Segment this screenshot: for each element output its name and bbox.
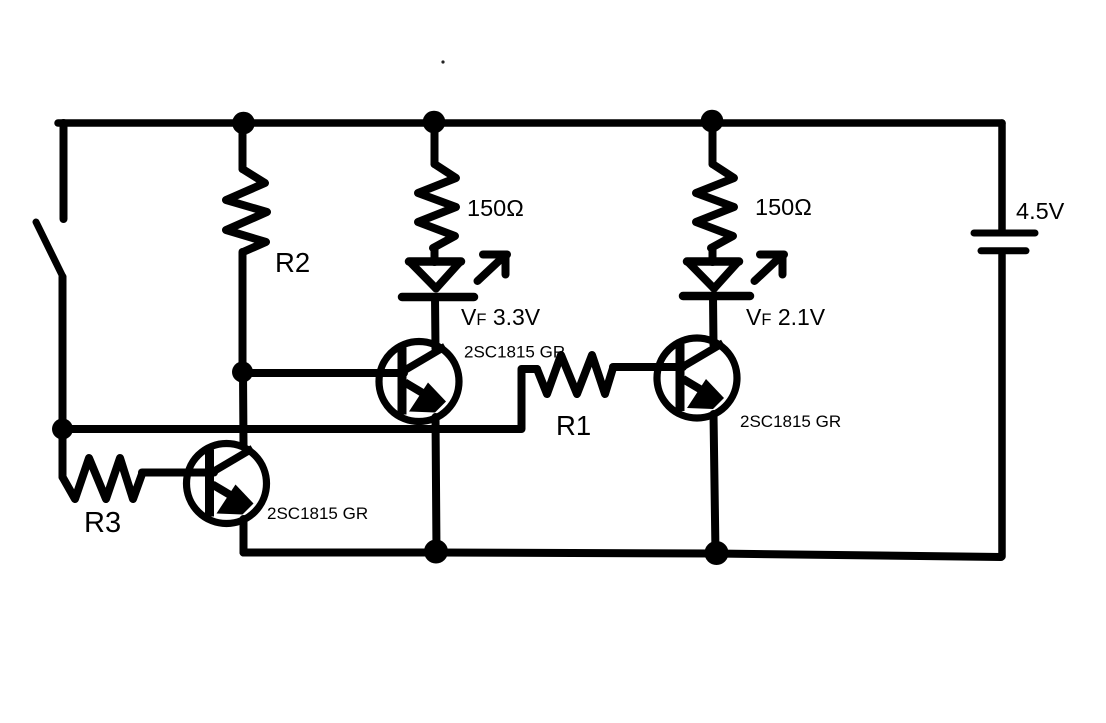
wire switch upper lead: [60, 123, 68, 219]
wire R3 to Q3 base: [142, 469, 214, 477]
wire bottom return rail: [244, 553, 1002, 558]
resistor R3: [63, 458, 143, 499]
LED D1 light arrow: [478, 255, 508, 282]
label 150ohm (branch 2): [755, 194, 812, 220]
wire Q1 emitter down to bottom rail: [436, 417, 437, 552]
svg-text:R2: R2: [275, 247, 310, 278]
resistor 150ohm (branch 1): [418, 123, 456, 262]
node B (R2 bottom / Q1 base / Q3 collector): [232, 362, 253, 383]
LED D2 light arrow: [755, 255, 785, 282]
battery BT1 plates: [974, 233, 1035, 251]
wire battery BT1 negative lead down: [998, 255, 1006, 557]
wire LED D2 cathode to Q2 collector: [709, 296, 718, 345]
wire Q2 emitter down to bottom rail: [714, 414, 716, 554]
label Q1 2SC1815 GR: [464, 343, 565, 362]
label R3: [84, 507, 121, 539]
label Q2 2SC1815 GR: [740, 412, 841, 431]
resistor R2: [226, 123, 267, 372]
LED D1: [402, 262, 474, 298]
stray mark: [441, 60, 444, 63]
svg-text:150Ω: 150Ω: [467, 195, 524, 221]
svg-text:VF 3.3V: VF 3.3V: [461, 304, 541, 330]
wire node B down to Q3 collector: [239, 372, 248, 446]
node top rail / LED1 branch: [423, 111, 446, 134]
resistor 150ohm (branch 2): [696, 123, 734, 262]
svg-text:4.5V: 4.5V: [1016, 198, 1065, 224]
svg-text:VF 2.1V: VF 2.1V: [746, 304, 826, 330]
label Q3 2SC1815 GR: [267, 504, 368, 523]
node bottom rail / Q1 emitter: [424, 540, 448, 564]
label VF 2.1V: [746, 304, 826, 330]
svg-text:150Ω: 150Ω: [755, 194, 812, 220]
svg-text:2SC1815 GR: 2SC1815 GR: [740, 412, 841, 431]
node A (switch / R3 / base bus junction): [52, 419, 73, 440]
label 150ohm (branch 1): [467, 195, 524, 221]
node bottom rail / Q2 emitter: [705, 541, 729, 565]
wire R1 to Q2 base: [613, 363, 683, 371]
transistor Q3: [187, 444, 267, 524]
wire base bus from node A to R1 corner: [63, 369, 538, 429]
wire LED D1 cathode to Q1 collector: [431, 297, 440, 349]
wire node B to Q1 base: [243, 369, 404, 377]
label R2: [275, 247, 310, 278]
label 4.5V: [1016, 198, 1065, 224]
LED D2: [683, 262, 750, 297]
svg-text:R3: R3: [84, 507, 121, 539]
node top rail / R2: [232, 112, 255, 135]
svg-text:2SC1815 GR: 2SC1815 GR: [267, 504, 368, 523]
resistor R1: [537, 355, 613, 394]
wire Q3 emitter to bottom rail corner: [244, 519, 261, 553]
transistor Q2: [657, 338, 737, 418]
transistor Q1: [379, 342, 459, 422]
label VF 3.3V: [461, 304, 541, 330]
wire top supply rail: [58, 119, 1002, 127]
wire switch lower lead down to node A: [59, 277, 67, 477]
battery BT1 lead from top rail: [998, 123, 1006, 230]
switch S1 blade: [36, 222, 63, 277]
label R1: [556, 410, 591, 441]
node top rail / LED2 branch: [701, 110, 724, 133]
svg-text:2SC1815 GR: 2SC1815 GR: [464, 343, 565, 362]
svg-text:R1: R1: [556, 410, 591, 441]
